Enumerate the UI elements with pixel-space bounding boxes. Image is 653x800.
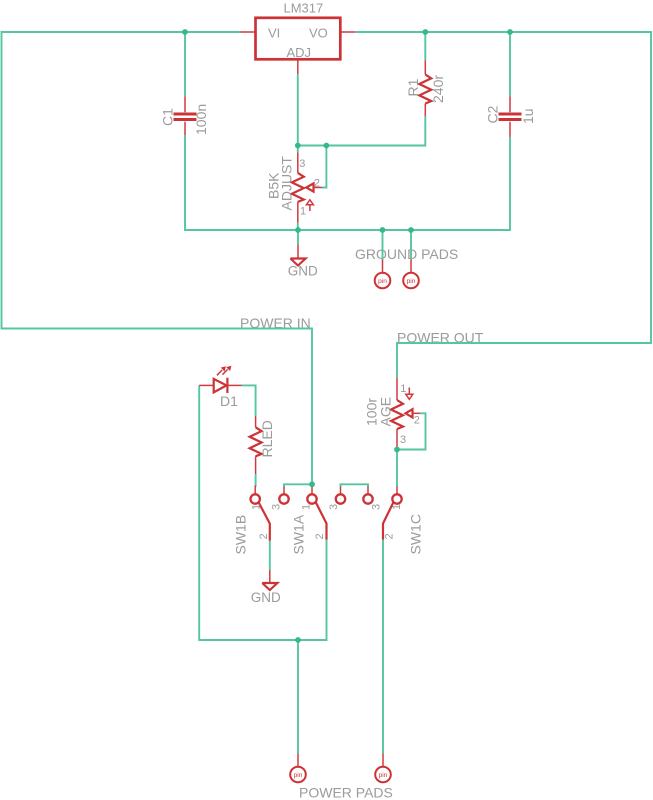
junction lower rail pad1 [295, 637, 301, 643]
wire POWER IN net (top rail left, left side, to SW1A junction) [2, 32, 313, 484]
svg-text:SW1C: SW1C [408, 514, 424, 554]
junction bottom rail GND1 [295, 227, 301, 233]
svg-text:POWER PADS: POWER PADS [299, 785, 393, 800]
svg-text:RLED: RLED [259, 420, 275, 457]
wire D1 left loop, bottom rail, SW1A pin2 [199, 385, 326, 640]
junction top rail C2 [507, 29, 513, 35]
wire SW1B pin2 to GND [269, 541, 271, 570]
junction mid rail wiper [324, 143, 330, 149]
svg-text:GND: GND [251, 590, 281, 605]
svg-text:1: 1 [251, 504, 263, 510]
junction top rail C1 [182, 29, 188, 35]
wire R1 top [424, 32, 426, 60]
svg-text:pin: pin [379, 772, 388, 779]
resistor RLED [250, 416, 275, 474]
svg-text:2: 2 [414, 415, 420, 427]
svg-text:VI: VI [268, 26, 280, 41]
pin U1 VO [341, 31, 355, 33]
potentiometer AGE 100r [364, 378, 421, 449]
ground pad 2 [403, 260, 419, 289]
svg-text:2: 2 [258, 533, 270, 539]
wire ground pad 2 stub [410, 230, 412, 260]
pin U1 VI [240, 31, 254, 33]
junction bottom rail pad1 [380, 227, 386, 233]
svg-text:1: 1 [400, 383, 406, 395]
svg-text:pin: pin [407, 278, 416, 285]
wiper arrow B5K pin 2 [306, 183, 313, 191]
LED arrows [217, 370, 222, 375]
wire B5K wiper loop [322, 146, 326, 188]
switch SW1B [233, 486, 270, 555]
svg-text:AGE: AGE [378, 397, 394, 427]
svg-text:C2: C2 [485, 105, 501, 123]
junction top rail R1 [422, 29, 428, 35]
wire D1 to RLED [242, 385, 256, 416]
wire AGE wiper loop [397, 413, 426, 449]
wire B5K pin1 to bottom rail [297, 223, 299, 230]
junction bottom rail pad2 [408, 227, 414, 233]
potentiometer B5K ADJUST [266, 152, 323, 222]
wire ground pad 1 stub [382, 230, 384, 260]
wire SW1A bracket [284, 484, 312, 487]
switch middle contacts [328, 487, 383, 511]
wire POWER OUT net (VO rail, right side, down to AGE pot) [355, 32, 651, 378]
svg-text:1: 1 [300, 206, 306, 218]
ground GND2 [251, 570, 281, 605]
junction mid rail B5K pin3 [295, 143, 301, 149]
svg-text:240r: 240r [430, 75, 446, 103]
capacitor C2 [485, 96, 537, 137]
wire RLED to SW1B pin1 [255, 474, 257, 487]
wire power pad 1 stub [297, 640, 299, 754]
junction SW1A bracket [309, 481, 315, 487]
svg-text:3: 3 [328, 504, 340, 510]
wire C1 top [184, 32, 186, 96]
switch SW1C [383, 487, 424, 555]
svg-text:2: 2 [314, 178, 320, 190]
pin U1 ADJ [297, 60, 299, 74]
adjust arrow AGE [408, 388, 410, 395]
svg-text:C1: C1 [160, 108, 176, 126]
power pad 1 [290, 754, 306, 783]
svg-text:VO: VO [309, 26, 328, 41]
wiper arrow AGE pin 2 [406, 409, 413, 417]
svg-text:LM317: LM317 [284, 1, 324, 16]
svg-text:GROUND PADS: GROUND PADS [355, 246, 458, 262]
wire bottom rail C1 to C2 [185, 135, 510, 230]
power pad 2 [375, 754, 391, 783]
svg-text:100n: 100n [193, 104, 209, 135]
wire ADJ to B5K pin 3 [297, 74, 299, 152]
capacitor C1 [160, 96, 210, 135]
svg-text:3: 3 [271, 504, 283, 510]
svg-text:2: 2 [314, 533, 326, 539]
wire GND1 stub [297, 230, 299, 245]
svg-text:1u: 1u [520, 108, 536, 124]
regulator U1 LM317 box [256, 1, 341, 61]
svg-text:1: 1 [391, 504, 403, 510]
wire mid rail to R1 bottom [298, 116, 426, 146]
adjust arrow B5K [309, 205, 311, 212]
svg-text:3: 3 [371, 504, 383, 510]
svg-text:ADJUST: ADJUST [279, 156, 295, 211]
svg-text:3: 3 [299, 158, 305, 170]
svg-text:3: 3 [400, 434, 406, 446]
svg-text:GND: GND [288, 264, 318, 279]
ground pad 1 [375, 260, 391, 289]
resistor R1 240r [405, 60, 446, 116]
svg-text:ADJ: ADJ [287, 45, 312, 60]
svg-text:pin: pin [378, 278, 387, 285]
ground GND1 [288, 245, 318, 279]
wire C2 top [509, 32, 511, 96]
wire AGE pin3 down to SW1C [396, 450, 398, 488]
junction AGE pin3 [394, 447, 400, 453]
diode D1 LED [199, 366, 241, 409]
wire SW1C pin2 down to power pad 2 [382, 540, 384, 754]
svg-text:pin: pin [294, 772, 303, 779]
svg-text:R1: R1 [405, 78, 421, 96]
wire mid bracket [341, 484, 369, 487]
switch SW1A [271, 487, 327, 555]
svg-text:SW1A: SW1A [291, 514, 307, 554]
svg-text:2: 2 [383, 533, 395, 539]
svg-text:1: 1 [301, 504, 313, 510]
svg-text:D1: D1 [220, 393, 238, 409]
svg-text:SW1B: SW1B [233, 515, 249, 555]
